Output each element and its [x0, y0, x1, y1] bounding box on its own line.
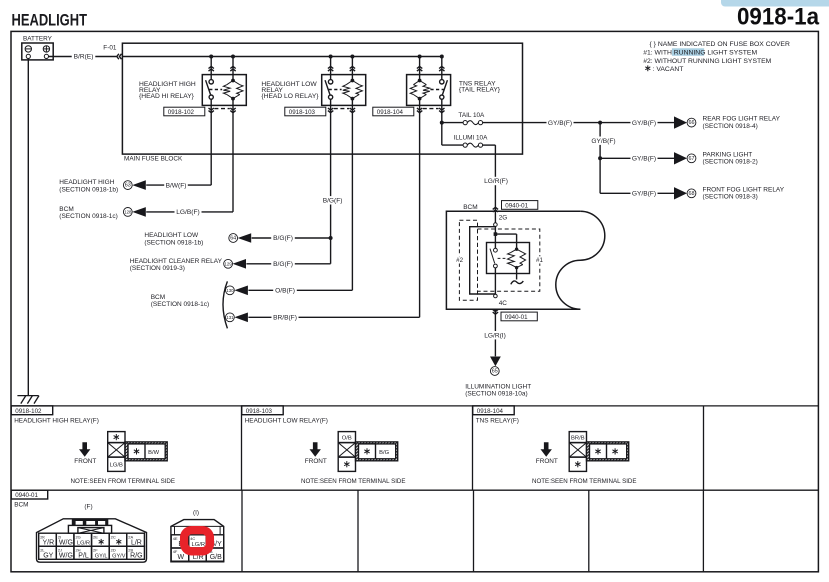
svg-text:0918-103: 0918-103	[246, 408, 273, 415]
node bus to relay1 coil	[231, 55, 235, 59]
wire TNS switch to fuses	[441, 113, 443, 146]
svg-text:BCM: BCM	[59, 206, 73, 213]
svg-text:#1: #1	[536, 257, 543, 264]
arrow to 63	[132, 180, 146, 190]
BCM connector F outline	[37, 519, 147, 562]
BCM internal relay box	[487, 243, 530, 274]
wire TAIL fuse to GY/B branch	[483, 122, 600, 124]
svg-text:B/R(E): B/R(E)	[74, 54, 94, 61]
svg-text:63: 63	[125, 183, 131, 189]
BCM connector F pin grid	[39, 533, 57, 546]
svg-text:(SECTION 0918-1c): (SECTION 0918-1c)	[151, 301, 210, 308]
svg-text:2G: 2G	[499, 215, 508, 222]
wire battery negative to ground	[27, 59, 29, 396]
svg-text:130: 130	[226, 288, 234, 293]
node 64 HEADLIGHT LOW	[229, 234, 238, 243]
svg-text:O/B(F): O/B(F)	[275, 288, 295, 295]
connector header 0918-104	[473, 406, 515, 415]
svg-text:0918-104: 0918-104	[377, 109, 404, 116]
svg-text:PARKING LIGHT: PARKING LIGHT	[703, 151, 753, 158]
arrow to 66	[674, 116, 687, 128]
node 131 BCM	[226, 313, 235, 322]
svg-text:BCM: BCM	[463, 204, 477, 211]
svg-text:HEADLIGHT: HEADLIGHT	[12, 12, 88, 30]
BCM connector I outline	[171, 520, 224, 562]
BCM relay switch	[494, 248, 498, 252]
row divider	[11, 489, 818, 491]
svg-text:2D: 2D	[111, 547, 116, 552]
svg-text:64: 64	[230, 236, 236, 242]
node 129 HEADLIGHT CLEANER RELAY	[224, 259, 233, 268]
svg-text:65: 65	[492, 369, 498, 375]
svg-text:{HEAD HI RELAY}: {HEAD HI RELAY}	[139, 93, 195, 100]
svg-text:FRONT FOG LIGHT RELAY: FRONT FOG LIGHT RELAY	[703, 186, 785, 193]
arrow to 130	[234, 286, 248, 296]
BCM connector I pin grid	[171, 535, 189, 548]
svg-text:(SECTION 0918-1b): (SECTION 0918-1b)	[59, 186, 118, 193]
svg-text:GY/L: GY/L	[95, 553, 108, 559]
BCM connector F lock tabs	[72, 519, 109, 525]
svg-text:B/G(F): B/G(F)	[273, 235, 293, 242]
wire relay2 switch to headlight low and cleaner relay	[330, 113, 332, 263]
svg-text:{TAIL RELAY}: {TAIL RELAY}	[459, 87, 501, 94]
svg-text:NOTE:SEEN FROM TERMINAL SIDE: NOTE:SEEN FROM TERMINAL SIDE	[301, 478, 406, 485]
svg-text:HEADLIGHT HIGH RELAY(F): HEADLIGHT HIGH RELAY(F)	[14, 417, 99, 424]
wire relay2 coil to BCM Q/B	[351, 113, 353, 290]
node 67 PARKING LIGHT	[687, 154, 696, 163]
connector header 0918-103	[242, 406, 284, 415]
svg-text:B/G: B/G	[379, 450, 389, 456]
dashed box #1	[478, 229, 540, 291]
svg-text:(SECTION 0919-3): (SECTION 0919-3)	[130, 265, 185, 272]
relay terminal stack	[338, 432, 355, 443]
main fuse block	[122, 43, 522, 154]
svg-text:{HEAD LO RELAY}: {HEAD LO RELAY}	[261, 93, 319, 100]
svg-text:: VACANT: : VACANT	[653, 66, 684, 73]
svg-text:{ } NAME INDICATED ON FUSE BOX: { } NAME INDICATED ON FUSE BOX COVER	[650, 41, 790, 48]
svg-text:B/G(F): B/G(F)	[323, 198, 343, 205]
node 130 BCM	[226, 286, 235, 295]
svg-text:HEADLIGHT CLEANER RELAY: HEADLIGHT CLEANER RELAY	[130, 258, 223, 265]
svg-text:BR/B(F): BR/B(F)	[273, 315, 297, 322]
bottom section divider	[11, 405, 818, 407]
svg-text:P/L: P/L	[78, 552, 89, 559]
node 68 FRONT FOG LIGHT RELAY	[687, 189, 696, 198]
svg-text:F-01: F-01	[103, 45, 117, 52]
svg-text:(SECTION 0918-3): (SECTION 0918-3)	[703, 194, 758, 201]
connector label 0940-01 bottom	[501, 312, 537, 321]
blue page tab	[721, 0, 829, 7]
node bus to relay1 switch	[209, 55, 213, 59]
svg-text:BCM: BCM	[151, 294, 165, 301]
svg-text:2F: 2F	[93, 547, 98, 552]
svg-text:BATTERY: BATTERY	[23, 36, 53, 43]
connector label 0940-01 top	[502, 201, 538, 210]
node bus to relay2 switch	[329, 55, 333, 59]
svg-text:4C: 4C	[190, 536, 195, 541]
svg-text:Y/R: Y/R	[42, 539, 54, 546]
svg-text:LG/R: LG/R	[191, 542, 205, 548]
svg-text:LG/B: LG/B	[110, 463, 123, 469]
svg-text:FRONT: FRONT	[305, 458, 327, 465]
wire LG/R to illumination light	[494, 309, 496, 356]
svg-text:B/W(F): B/W(F)	[166, 182, 187, 189]
wire GY/B vertical branch	[599, 123, 601, 194]
svg-text:2E: 2E	[93, 534, 98, 539]
svg-text:FRONT: FRONT	[74, 458, 96, 465]
svg-text:0918-1a: 0918-1a	[737, 4, 819, 31]
arrow to 131	[234, 313, 248, 323]
legend highlight RUNNING	[672, 48, 704, 56]
bus wire from F-01 across fuse block	[122, 56, 441, 58]
svg-text:TNS RELAY(F): TNS RELAY(F)	[476, 417, 519, 424]
svg-text:MAIN FUSE BLOCK: MAIN FUSE BLOCK	[124, 156, 183, 163]
svg-text:(SECTION 0918-10a): (SECTION 0918-10a)	[465, 391, 528, 398]
svg-text:0940-01: 0940-01	[505, 314, 528, 321]
svg-text:BCM: BCM	[14, 502, 28, 509]
svg-text:LG/R(F): LG/R(F)	[484, 178, 508, 185]
legend note line 4	[647, 65, 649, 71]
svg-text:0918-104: 0918-104	[477, 408, 504, 415]
arrow to 129	[233, 259, 247, 269]
relay terminal stack	[569, 432, 586, 443]
arrow to 67	[674, 152, 687, 164]
FRONT arrow	[309, 442, 320, 456]
dashed box #2	[459, 220, 477, 300]
svg-text:GY/B(F): GY/B(F)	[632, 191, 656, 198]
row1 column dividers	[241, 406, 243, 490]
svg-text:W/G: W/G	[59, 552, 73, 559]
svg-text:ILLUMINATION LIGHT: ILLUMINATION LIGHT	[465, 383, 531, 390]
red highlight on pin 4C	[184, 530, 210, 551]
svg-text:BR/B: BR/B	[571, 436, 585, 442]
svg-text:0918-103: 0918-103	[289, 109, 316, 116]
wire ILLUMI fuse to BCM LG/R	[483, 144, 496, 146]
svg-text:0918-102: 0918-102	[15, 408, 42, 415]
svg-text:2C: 2C	[111, 534, 116, 539]
arrow to 64	[238, 233, 252, 243]
svg-text:GY/B(F): GY/B(F)	[632, 156, 656, 163]
svg-text:W/G: W/G	[59, 539, 73, 546]
node bus to relay2 coil	[350, 55, 354, 59]
wire relay1 switch to headlight high	[210, 113, 212, 185]
svg-text:W: W	[177, 554, 184, 561]
FRONT arrow	[541, 442, 552, 456]
battery	[22, 43, 53, 60]
ground	[17, 395, 38, 397]
arrow to 65	[490, 357, 501, 367]
svg-text:LG/R(I): LG/R(I)	[484, 332, 506, 339]
svg-text:FRONT: FRONT	[536, 458, 558, 465]
svg-text:TAIL 10A: TAIL 10A	[458, 112, 485, 119]
relay terminal stack	[108, 432, 125, 443]
wire relay1 coil to BCM	[232, 113, 234, 211]
wire GY/B to rear fog light relay	[600, 122, 675, 124]
svg-text:L/R: L/R	[131, 539, 142, 546]
svg-text:(SECTION 0918-2): (SECTION 0918-2)	[703, 159, 758, 166]
svg-text:GY/B(F): GY/B(F)	[548, 120, 572, 127]
svg-text:ILLUMI 10A: ILLUMI 10A	[454, 135, 488, 142]
node 4C	[494, 294, 498, 298]
svg-text:4C: 4C	[499, 300, 508, 307]
FRONT arrow	[79, 442, 90, 456]
wire GY/B to parking light	[600, 157, 675, 159]
connector header 0918-102	[11, 406, 53, 415]
arrow to 128	[132, 207, 146, 217]
svg-text:REAR FOG LIGHT RELAY: REAR FOG LIGHT RELAY	[703, 116, 781, 123]
svg-text:B/W: B/W	[148, 450, 159, 456]
svg-text:(SECTION 0918-1c): (SECTION 0918-1c)	[59, 213, 118, 220]
svg-text:4E: 4E	[173, 536, 178, 541]
svg-text:HEADLIGHT HIGH: HEADLIGHT HIGH	[59, 179, 114, 186]
svg-text:GY/B(F): GY/B(F)	[591, 138, 615, 145]
svg-text:67: 67	[689, 156, 695, 162]
svg-text:GY/B(F): GY/B(F)	[632, 120, 656, 127]
svg-text:#2: #2	[456, 257, 463, 264]
svg-text:0918-102: 0918-102	[168, 109, 195, 116]
svg-text:G/B: G/B	[210, 554, 222, 561]
connector header 0940-01	[11, 490, 48, 499]
svg-text:128: 128	[124, 210, 132, 215]
BCM bypass wire #2	[470, 227, 496, 294]
connector chevron out of BCM	[493, 310, 498, 312]
svg-text:HEADLIGHT LOW: HEADLIGHT LOW	[144, 232, 199, 239]
BCM relay coil	[495, 233, 516, 235]
svg-text:NOTE:SEEN FROM TERMINAL SIDE: NOTE:SEEN FROM TERMINAL SIDE	[71, 478, 176, 485]
relay 0918-103 HEADLIGHT LOW RELAY	[322, 75, 366, 106]
svg-text:#1: WITH RUNNING LIGHT SYSTEM: #1: WITH RUNNING LIGHT SYSTEM	[643, 50, 757, 57]
node 63 HEADLIGHT HIGH	[123, 181, 132, 190]
row2 column dividers	[241, 490, 243, 572]
node 128 BCM	[123, 208, 132, 217]
svg-text:#2: WITHOUT RUNNING LIGHT SYST: #2: WITHOUT RUNNING LIGHT SYSTEM	[643, 58, 771, 65]
svg-text:66: 66	[689, 120, 695, 126]
node bus to TNS coil	[418, 55, 422, 59]
node 65 ILLUMINATION LIGHT	[490, 367, 499, 376]
svg-text:LG/R: LG/R	[77, 540, 90, 546]
bracket for BCM nodes	[223, 281, 227, 328]
svg-text:(SECTION 0918-4): (SECTION 0918-4)	[703, 123, 758, 130]
connector chevron into BCM	[493, 210, 498, 212]
svg-text:0940-01: 0940-01	[15, 492, 38, 499]
wire B/R(E) battery positive to fuse F-01	[49, 56, 117, 58]
svg-text:NOTE:SEEN FROM TERMINAL SIDE: NOTE:SEEN FROM TERMINAL SIDE	[532, 478, 637, 485]
wire TNS coil to BCM BR/B	[419, 113, 421, 318]
svg-text:LG/B(F): LG/B(F)	[176, 209, 199, 216]
svg-text:O/B: O/B	[342, 436, 352, 442]
wire BCM internal main	[494, 226, 496, 248]
relay 0918-102 HEADLIGHT HIGH RELAY	[202, 75, 246, 106]
wire BCM coil to squiggle	[516, 268, 518, 280]
arrow to 68	[674, 187, 687, 199]
svg-text:68: 68	[689, 191, 695, 197]
svg-text:R/G: R/G	[130, 552, 142, 559]
svg-text:(I): (I)	[193, 510, 199, 517]
svg-text:0940-01: 0940-01	[505, 202, 528, 209]
svg-text:GY: GY	[43, 552, 53, 559]
svg-text:2G: 2G	[75, 534, 80, 539]
wire GY/B to front fog light relay	[600, 192, 675, 194]
node 66 REAR FOG LIGHT RELAY	[687, 118, 696, 127]
relay 0918-104 TNS RELAY	[407, 75, 451, 106]
wire to headlight cleaner relay	[246, 263, 330, 265]
svg-text:HEADLIGHT LOW RELAY(F): HEADLIGHT LOW RELAY(F)	[245, 417, 328, 424]
svg-text:131: 131	[226, 315, 234, 320]
svg-text:B/G(F): B/G(F)	[273, 261, 293, 268]
svg-text:(SECTION 0918-1b): (SECTION 0918-1b)	[144, 239, 203, 246]
svg-text:GY/V: GY/V	[112, 553, 126, 559]
svg-text:(F): (F)	[84, 504, 92, 511]
svg-text:129: 129	[225, 261, 233, 266]
